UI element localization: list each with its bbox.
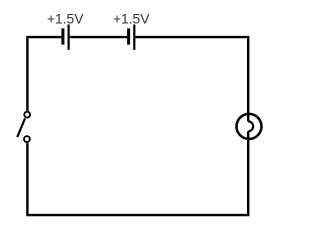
battery B2 negative plate (short thick) bbox=[127, 28, 130, 44]
battery B1 negative plate (short thick) bbox=[61, 28, 64, 44]
wire top-right segment with right corner down to lamp bump bbox=[135, 37, 248, 121]
switch S1 bottom terminal circle bbox=[24, 136, 30, 142]
wire between battery B1 and battery B2 bbox=[70, 36, 127, 38]
battery B2 positive plate (long thin) bbox=[133, 25, 135, 50]
lamp L1 filament bump (right semicircle) bbox=[248, 121, 253, 131]
lamp L1 outer circle bbox=[237, 114, 262, 139]
battery B1 positive plate (long thin) bbox=[67, 25, 69, 50]
svg-text:+1.5V: +1.5V bbox=[113, 11, 150, 26]
switch S1 lever arm (open) bbox=[17, 118, 25, 137]
svg-text:+1.5V: +1.5V bbox=[47, 11, 84, 26]
wire top-left segment with left corner bbox=[27, 37, 61, 111]
wire from lamp down, bottom wire and up left to switch bbox=[27, 131, 248, 215]
switch S1 top terminal circle bbox=[24, 112, 30, 118]
